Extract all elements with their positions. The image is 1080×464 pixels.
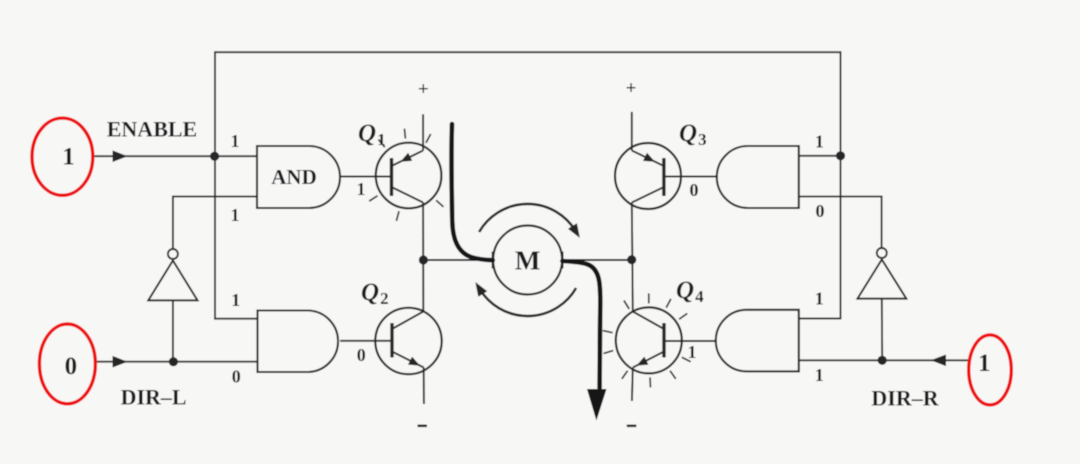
- current path: bold line +V through Q1 to motor left terminal: [451, 124, 600, 388]
- svg-text:1: 1: [357, 179, 366, 199]
- svg-text:1: 1: [62, 143, 75, 170]
- transistor Q4 base bar: [662, 323, 665, 358]
- wire: Q2 emitter to minus supply: [423, 368, 425, 405]
- transistor Q2 collector diagonal: [392, 312, 423, 330]
- transistor Q4 circle: [616, 307, 682, 373]
- transistor Q4 collector diagonal: [633, 312, 664, 330]
- transistor Q3 collector diagonal: [632, 187, 664, 203]
- svg-text:1: 1: [688, 342, 697, 362]
- wire: +V to Q1 emitter: [422, 114, 424, 150]
- current path: bold arrowhead: [587, 389, 607, 421]
- inverter X2 (DIR-R) triangle: [858, 260, 907, 299]
- motor M left brush terminal: [492, 252, 494, 269]
- emphasis rays around Q4 (conducting): [603, 293, 691, 387]
- current path: bold line motor right terminal down through Q4 to minus: [562, 261, 600, 388]
- red ellipse around ENABLE value: [32, 118, 93, 195]
- arrow: ENABLE signal direction: [113, 150, 128, 162]
- motor M right brush terminal: [561, 252, 563, 269]
- svg-text:0: 0: [65, 353, 78, 380]
- node: left motor terminal junction: [419, 255, 428, 264]
- svg-text:0: 0: [690, 180, 699, 200]
- svg-text:0: 0: [357, 345, 366, 365]
- svg-text:1: 1: [815, 289, 824, 309]
- svg-text:1: 1: [231, 205, 240, 225]
- wire: inverter X2 input down to DIR-R junction: [881, 299, 883, 361]
- wire: AND U1 output to Q1 base: [340, 176, 392, 178]
- transistor Q2 base bar: [390, 323, 393, 358]
- node: right motor terminal junction: [627, 255, 636, 264]
- node: DIR-L junction to inverter X1: [169, 357, 178, 366]
- inverter X2 output bubble: [877, 248, 887, 258]
- wire: motor to right junction: [562, 259, 631, 261]
- arrow: DIR-L signal direction: [113, 356, 128, 368]
- svg-text:0: 0: [232, 366, 241, 386]
- svg-text:1: 1: [231, 131, 240, 151]
- svg-text:1: 1: [978, 350, 991, 377]
- svg-text:1: 1: [815, 132, 824, 152]
- motor M body: [493, 226, 562, 295]
- svg-text:M: M: [515, 246, 540, 276]
- transistor Q1 circle: [376, 143, 442, 209]
- wire: +V to Q3 emitter: [631, 112, 633, 151]
- wire: DIR-R line through junction to AND U4 bottom input: [799, 359, 969, 361]
- svg-text:DIR–L: DIR–L: [121, 385, 187, 410]
- node: right rail junction at AND U3 input: [836, 151, 845, 160]
- svg-text:AND: AND: [271, 165, 317, 189]
- transistor Q4 emitter diagonal (arrow out, NPN): [633, 352, 664, 368]
- wire: ENABLE input to AND U1 top input: [93, 155, 257, 157]
- svg-text:+: +: [626, 78, 637, 99]
- wire: AND U2 output to Q2 base: [340, 340, 393, 342]
- wire: inverter X1 output up and right to AND U1 bottom input: [173, 197, 257, 249]
- red ellipse around DIR-R value: [969, 335, 1012, 405]
- wire: left junction to motor: [423, 259, 492, 261]
- rotation arrow: top arc (clockwise): [479, 204, 575, 232]
- node: ENABLE junction on left rail: [210, 152, 219, 161]
- transistor Q1 base bar: [390, 158, 393, 196]
- svg-text:0: 0: [816, 201, 825, 221]
- AND gate U2 body: [258, 311, 339, 373]
- wire: AND U3 top input to right rail: [799, 155, 841, 157]
- svg-text:1: 1: [815, 365, 824, 385]
- transistor Q3 base bar: [662, 158, 665, 196]
- AND gate U1 body: [257, 146, 340, 208]
- emphasis rays around Q1 (conducting): [369, 129, 443, 221]
- wire: AND U4 output to Q4 base: [664, 340, 716, 342]
- wire: Q4 emitter to minus supply: [631, 368, 634, 402]
- wire: AND U3 output to Q3 base: [664, 176, 717, 178]
- AND gate U3 body (mirrored): [717, 146, 799, 208]
- wire: DIR-L junction up to inverter X1 input: [172, 300, 174, 361]
- minus supply terminal under Q4: [627, 425, 637, 428]
- transistor Q3 circle: [615, 143, 681, 209]
- wire: AND U3 bottom input right and down to inverter X2 output: [799, 197, 882, 248]
- svg-text:+: +: [418, 79, 429, 100]
- svg-text:DIR–R: DIR–R: [871, 386, 939, 411]
- transistor Q1 collector diagonal: [392, 187, 424, 203]
- transistor Q1 emitter diagonal (arrow into base, PNP): [392, 151, 424, 167]
- inverter X1 (DIR-L) triangle: [148, 261, 197, 301]
- wire: feedback rail from left AND-2 input up, across top, down to right AND-3 input: [215, 52, 841, 319]
- minus supply terminal under Q2: [418, 425, 428, 428]
- arrow: DIR-R signal direction (pointing left): [931, 355, 946, 367]
- wire: DIR-L input line to AND U2 bottom input: [95, 361, 258, 363]
- transistor Q2 emitter diagonal (arrow out, NPN): [392, 352, 424, 368]
- wire: Q1 collector down through motor node to Q2 collector: [422, 203, 424, 312]
- node: DIR-R junction to inverter X2: [878, 356, 887, 365]
- transistor Q3 emitter diagonal (arrow into base, PNP): [632, 151, 664, 167]
- rotation arrow: bottom arc (clockwise): [480, 288, 576, 316]
- AND gate U4 body (mirrored): [716, 310, 799, 372]
- transistor Q2 circle: [375, 308, 441, 374]
- red ellipse around DIR-L value: [39, 324, 95, 404]
- wire: Q3 collector down through motor node to Q4 collector: [632, 203, 633, 312]
- inverter X1 output bubble: [168, 249, 178, 259]
- svg-text:1: 1: [231, 290, 240, 310]
- svg-text:ENABLE: ENABLE: [107, 117, 197, 142]
